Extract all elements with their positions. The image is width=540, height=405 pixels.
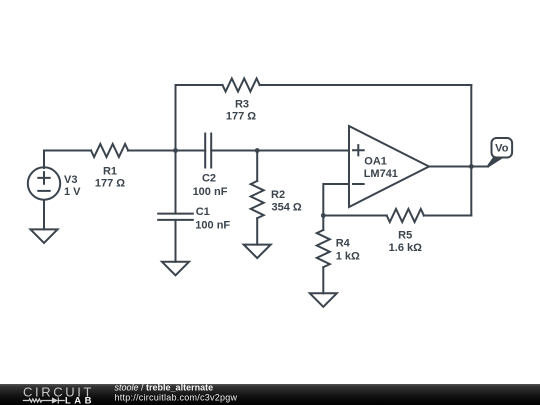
svg-text:LAB: LAB [65, 395, 92, 404]
svg-text:R2: R2 [271, 189, 285, 201]
flag Vo [488, 138, 513, 167]
resistor R5 [387, 209, 424, 222]
wire node A to C2 [176, 150, 206, 152]
wire node C to R5 [323, 215, 386, 217]
ground under R4 [310, 293, 337, 307]
wire C2 to node B [211, 150, 257, 152]
wire node A up to R3 [176, 85, 223, 151]
logo resistor-diode glyph [23, 397, 65, 403]
capacitor C1 [158, 214, 193, 220]
svg-text:stoole / treble_alternate: stoole / treble_alternate [115, 384, 214, 393]
wire node B to op-amp [257, 150, 349, 152]
svg-text:R3: R3 [235, 99, 249, 111]
svg-text:C1: C1 [196, 206, 210, 218]
svg-text:Vo: Vo [495, 143, 509, 155]
resistor R4 [317, 230, 330, 267]
label V3 value [64, 174, 81, 198]
label R4 value [336, 238, 360, 263]
wire V3 bottom to ground [43, 200, 45, 229]
op-amp OA1 [349, 126, 429, 207]
resistor R3 [223, 79, 260, 92]
svg-text:http://circuitlab.com/c3v2pgw: http://circuitlab.com/c3v2pgw [115, 392, 238, 402]
label R1 value [95, 165, 125, 189]
svg-text:R4: R4 [336, 238, 351, 250]
wire R4 to ground [322, 267, 324, 293]
svg-text:1.6 kΩ: 1.6 kΩ [389, 242, 422, 254]
wire V3 top to R1 [44, 151, 91, 169]
wire node B down to R2 [256, 151, 258, 182]
wire C1 to ground [175, 220, 177, 262]
node A [173, 148, 178, 153]
label R3 value [226, 99, 256, 123]
wire R3 to right rail [260, 84, 472, 86]
resistor R1 [91, 144, 128, 157]
svg-text:OA1: OA1 [364, 155, 387, 167]
wire R5 to right rail [424, 215, 472, 217]
node C [321, 213, 326, 218]
capacitor C2 [205, 134, 211, 168]
wire R1 to node A [128, 150, 176, 152]
wire R2 to ground [256, 218, 258, 244]
svg-text:CIRCUIT: CIRCUIT [23, 384, 92, 399]
svg-text:1 kΩ: 1 kΩ [336, 251, 360, 263]
wire right rail vertical [470, 85, 472, 216]
svg-text:100 nF: 100 nF [193, 186, 228, 198]
svg-text:354 Ω: 354 Ω [272, 202, 302, 214]
svg-text:LM741: LM741 [364, 168, 398, 180]
svg-text:1 V: 1 V [64, 186, 81, 198]
wire node A down to C1 [175, 151, 177, 214]
resistor R2 [251, 181, 264, 218]
svg-text:177 Ω: 177 Ω [226, 111, 256, 123]
ground under V3 [31, 229, 58, 243]
wire op-amp output [429, 166, 488, 168]
footer bar [0, 384, 540, 405]
voltage source V3 [28, 167, 60, 199]
svg-text:177 Ω: 177 Ω [95, 178, 125, 190]
svg-text:R1: R1 [103, 165, 117, 177]
ground under R2 [244, 245, 271, 259]
wire node C down to R4 [322, 216, 324, 231]
node output [469, 164, 474, 169]
node B [255, 148, 260, 153]
svg-text:100 nF: 100 nF [195, 219, 230, 231]
svg-text:R5: R5 [398, 229, 412, 241]
svg-text:V3: V3 [64, 174, 77, 186]
label R5 value [389, 229, 422, 254]
label R2 value [271, 189, 302, 214]
label C1 value [195, 206, 230, 232]
svg-text:C2: C2 [202, 173, 216, 185]
label OA1 value [364, 155, 398, 180]
wire op-amp inverting input [323, 184, 349, 216]
ground under C1 [162, 262, 189, 276]
label C2 value [193, 173, 228, 198]
